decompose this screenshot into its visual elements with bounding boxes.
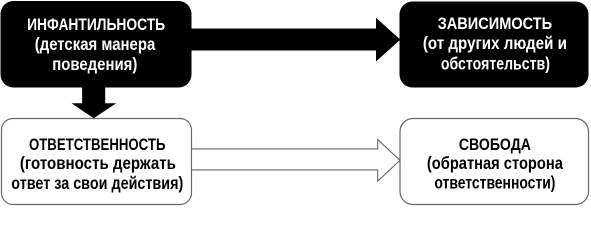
svg-text:СВОБОДА: СВОБОДА [459,136,531,154]
svg-text:обстоятельств): обстоятельств) [441,53,550,73]
arrow ИНФАНТИЛЬНОСТЬ → ЗАВИСИМОСТЬ (thick black horizontal) [190,18,400,62]
box СВОБОДА (bottom-right, white rounded, gray outline) [400,119,589,205]
svg-text:ответственности): ответственности) [434,173,555,193]
svg-text:ОТВЕТСТВЕННОСТЬ: ОТВЕТСТВЕННОСТЬ [29,136,166,154]
box ОТВЕТСТВЕННОСТЬ (bottom-left, white rounded, gray outline) [2,119,192,205]
arrow ИНФАНТИЛЬНОСТЬ ↓ ОТВЕТСТВЕННОСТЬ (thick black vertical) [72,85,117,118]
svg-text:поведения): поведения) [52,54,137,74]
box ИНФАНТИЛЬНОСТЬ (top-left, black rounded) [1,1,192,88]
box ЗАВИСИМОСТЬ (top-right, black rounded) [400,2,589,88]
svg-text:(готовность держать: (готовность держать [20,153,176,173]
svg-text:(детская манера: (детская манера [35,34,156,54]
svg-text:(обратная сторона: (обратная сторона [427,153,563,173]
svg-text:ответ за свои действия): ответ за свои действия) [11,173,183,193]
svg-text:ИНФАНТИЛЬНОСТЬ: ИНФАНТИЛЬНОСТЬ [27,16,165,34]
svg-text:ЗАВИСИМОСТЬ: ЗАВИСИМОСТЬ [438,15,553,33]
svg-text:(от других людей и: (от других людей и [423,33,567,53]
arrow ОТВЕТСТВЕННОСТЬ → СВОБОДА (white outline horizontal) [192,140,401,182]
